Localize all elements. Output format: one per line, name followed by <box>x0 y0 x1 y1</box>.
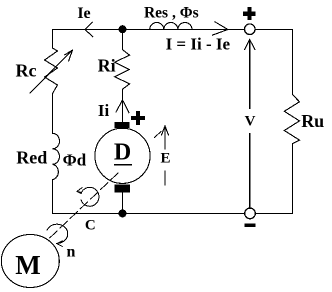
svg-text:E: E <box>160 150 170 166</box>
svg-text:n: n <box>67 244 76 261</box>
svg-text:C: C <box>85 218 96 234</box>
svg-text:Ru: Ru <box>301 111 324 131</box>
svg-text:Red: Red <box>16 148 47 168</box>
svg-text:Rc: Rc <box>16 61 37 81</box>
svg-text:Ie: Ie <box>77 5 90 22</box>
svg-text:M: M <box>15 250 40 280</box>
svg-text:Ii: Ii <box>98 101 110 120</box>
svg-text:I = Ii - Ie: I = Ii - Ie <box>166 35 231 54</box>
svg-text:Φd: Φd <box>63 151 87 170</box>
svg-text:V: V <box>245 113 256 129</box>
svg-text:Res , Φs: Res , Φs <box>144 5 199 22</box>
svg-text:D: D <box>114 139 131 165</box>
svg-text:Ri: Ri <box>98 55 116 75</box>
